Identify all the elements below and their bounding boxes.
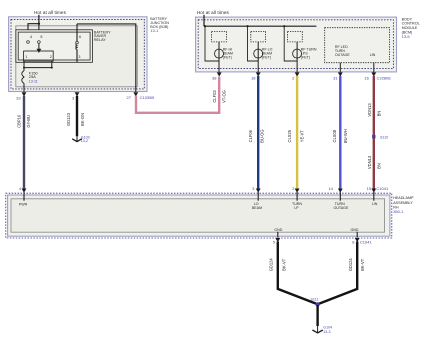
svg-text:1: 1 <box>25 55 27 59</box>
svg-text:BODY: BODY <box>402 17 413 21</box>
svg-text:BU-OG: BU-OG <box>260 129 265 142</box>
junction dot hot feed <box>38 23 40 25</box>
junction dot rail cell1 <box>204 25 206 27</box>
label: BODY CONTROL MODULE (BCM) 13-5 <box>402 17 420 39</box>
svg-text:Hot at all times: Hot at all times <box>197 10 230 15</box>
svg-text:LP: LP <box>294 206 299 210</box>
svg-text:C2280E: C2280E <box>377 76 392 81</box>
svg-text:(FET): (FET) <box>262 56 271 60</box>
relay switch contact box <box>24 51 54 61</box>
ground G103 <box>72 135 89 143</box>
svg-text:OUTAGE: OUTAGE <box>333 206 349 210</box>
svg-text:5: 5 <box>40 35 42 39</box>
fuse F150 25A <box>22 68 39 92</box>
wire: relay armature from pin 5 to switch <box>37 43 42 53</box>
svg-text:G104: G104 <box>323 325 332 329</box>
svg-text:OUTAGE: OUTAGE <box>335 53 351 57</box>
svg-text:CLF03: CLF03 <box>212 90 217 103</box>
pin 6 terminal and feed <box>76 24 81 44</box>
junction dot rail cell2 <box>246 25 248 27</box>
connector arrow BJB pin 33 <box>16 92 26 100</box>
wire: BCM hot rail <box>204 25 316 27</box>
svg-text:CLS25: CLS25 <box>287 129 292 142</box>
svg-text:HEADLAMP: HEADLAMP <box>393 196 414 200</box>
battery junction box BJB outline <box>9 17 147 92</box>
ground G104 <box>312 325 332 333</box>
wire: branch to relay pin 4 <box>28 24 39 41</box>
pin 5 terminal <box>38 35 43 43</box>
svg-text:C1041: C1041 <box>360 240 373 245</box>
svg-text:GD124: GD124 <box>269 258 274 272</box>
wire: pin 6 hot rail to C1035B drop <box>77 24 136 92</box>
wire: switch pin 2 drop <box>51 61 53 69</box>
wire CLS25 YE-VT (BCM pin 2 to headlamp TURN LP) <box>287 76 304 189</box>
svg-text:S111: S111 <box>311 297 319 301</box>
wire CLF06 BU-OG (BCM pin 18 to headlamp LO BEAM) <box>248 76 264 189</box>
headlamp assembly RH outline <box>6 193 392 238</box>
svg-text:LIN: LIN <box>370 53 376 57</box>
wire: LIN drop <box>373 63 375 73</box>
connector arrow headlamp pin 2 TURN LP <box>292 186 299 201</box>
connector arrow headlamp pin 15 C1041 LIN <box>367 186 389 201</box>
wire GD124 BK-VT right (headlamp pin 8 to splice S111) <box>318 242 366 305</box>
label: BATTERY JUNCTION BOX (BJB) 13-1 <box>150 17 169 33</box>
svg-text:Hot at all times: Hot at all times <box>34 10 67 15</box>
connector arrow headlamp pin 8 C1041 GND <box>352 238 372 245</box>
wire GD124 BK-VT left (headlamp pin 5 to splice S111) <box>269 242 318 305</box>
relay K1 battery saver relay box <box>16 30 93 63</box>
label: HEADLAMP ASSEMBLY RH 350-1 <box>393 196 414 214</box>
svg-text:15: 15 <box>367 186 372 191</box>
svg-text:18: 18 <box>251 76 256 81</box>
node TURN LP <box>292 202 302 210</box>
connector arrow BCM pin 16 C2280E <box>364 72 391 80</box>
node: Hot at all times (BCM feed) <box>197 10 230 15</box>
svg-text:13-11: 13-11 <box>29 79 38 83</box>
node TURN OUTAGE <box>333 202 349 210</box>
svg-text:GY-BU: GY-BU <box>26 115 31 128</box>
wire CLS08 BU-WH (BCM pin 31 to headlamp TURN OUTAGE) <box>332 76 348 189</box>
svg-text:BK-VT: BK-VT <box>281 258 286 271</box>
svg-text:3: 3 <box>78 55 80 59</box>
connector arrow BCM pin 38 <box>212 72 222 80</box>
svg-text:13-2: 13-2 <box>81 139 88 143</box>
svg-text:BEAM: BEAM <box>252 206 262 210</box>
svg-text:C1035B: C1035B <box>140 95 155 100</box>
node LIN <box>372 202 378 206</box>
pin 2 label <box>50 55 52 59</box>
body control module BCM outline <box>196 17 397 72</box>
connector arrow headlamp pin 4 PWR <box>19 186 26 201</box>
svg-text:27: 27 <box>127 95 132 100</box>
svg-text:33: 33 <box>16 95 21 100</box>
svg-text:C1041: C1041 <box>376 186 389 191</box>
splice S111 <box>311 297 320 306</box>
svg-text:(FET): (FET) <box>301 56 310 60</box>
connector arrow BJB pin 27 C1035B <box>127 92 155 100</box>
junction dot rail cell3 <box>283 25 285 27</box>
svg-text:PWR: PWR <box>19 202 28 206</box>
svg-text:GD124: GD124 <box>348 258 353 272</box>
wire GD123 BK-GN (BJB pin 3 to ground G103) <box>66 96 85 136</box>
relay coil <box>76 44 77 62</box>
connector arrow BCM pin 18 <box>251 72 261 80</box>
pin 3 label <box>78 55 80 59</box>
connector arrow BCM pin 31 <box>333 72 343 80</box>
svg-text:CONTROL: CONTROL <box>402 22 420 26</box>
FET Q3 RF TURN LPS <box>284 26 317 72</box>
svg-text:16: 16 <box>364 76 369 81</box>
svg-text:13-3: 13-3 <box>323 330 330 334</box>
svg-text:BN: BN <box>376 111 381 117</box>
wire: hot feed into BCM <box>203 15 205 26</box>
wire CLF03 VT-OG (BJB pin 27 to BCM pin 38) <box>136 77 227 113</box>
wire VDN13 BN lower (splice S110 to headlamp LIN) <box>367 155 382 169</box>
FET Q2 RF LO BEAM <box>248 26 273 72</box>
node GND left <box>274 228 282 238</box>
svg-text:6: 6 <box>79 35 81 39</box>
pin 1 label <box>25 55 27 59</box>
node LO BEAM <box>252 202 262 210</box>
svg-text:YE-VT: YE-VT <box>299 130 304 143</box>
node: Hot at all times (BJB feed) <box>34 10 67 15</box>
svg-text:VDN13: VDN13 <box>367 155 372 169</box>
svg-text:13-1: 13-1 <box>150 28 159 33</box>
svg-text:CLF06: CLF06 <box>248 129 253 142</box>
node PWR <box>19 202 28 206</box>
svg-text:S110: S110 <box>380 135 388 139</box>
svg-text:38: 38 <box>212 76 217 81</box>
svg-text:(FET): (FET) <box>223 56 232 60</box>
svg-text:350-1: 350-1 <box>393 209 404 214</box>
svg-text:4: 4 <box>30 35 32 39</box>
svg-text:VDN13: VDN13 <box>367 103 372 117</box>
svg-text:31: 31 <box>333 76 338 81</box>
svg-text:BK-VT: BK-VT <box>360 258 365 271</box>
wire splice S111 to ground G104 <box>316 305 318 326</box>
svg-text:MODULE: MODULE <box>402 26 418 30</box>
svg-text:GND: GND <box>351 228 359 232</box>
wire VDN13 BN upper (BCM pin 16 to splice S110) <box>367 76 382 189</box>
wire: hot feed into BJB <box>38 15 40 24</box>
connector arrow BJB pin 3 <box>72 92 79 100</box>
svg-text:VT-OG: VT-OG <box>222 90 227 103</box>
svg-text:BN: BN <box>376 163 381 169</box>
svg-text:13-5: 13-5 <box>402 34 411 39</box>
svg-text:GD123: GD123 <box>66 112 71 126</box>
svg-text:CLS08: CLS08 <box>332 129 337 142</box>
wire CBP16 GY-BU (BJB pin 33 to headlamp PWR) <box>17 96 31 189</box>
svg-text:14: 14 <box>328 186 333 191</box>
connector arrow BCM pin 2 <box>292 72 299 80</box>
wire: switch pin 1 drop <box>23 61 25 69</box>
splice S110 <box>372 135 388 139</box>
svg-text:LIN: LIN <box>372 202 378 206</box>
wire: turn outage output drop <box>339 63 341 73</box>
svg-text:2: 2 <box>50 55 52 59</box>
label: BATTERY SAVER RELAY <box>94 30 111 42</box>
svg-text:BK-GN: BK-GN <box>80 113 85 126</box>
connector arrow headlamp pin 5 GND <box>273 238 280 245</box>
svg-text:GND: GND <box>274 228 282 232</box>
svg-text:BU-WH: BU-WH <box>343 129 348 143</box>
node GND right <box>351 228 359 238</box>
FET Q1 RF HI BEAM <box>205 26 233 72</box>
pin 4 terminal <box>27 35 32 43</box>
svg-text:ASSEMBLY: ASSEMBLY <box>393 201 413 205</box>
connector arrow headlamp pin 3 LO BEAM <box>252 186 260 201</box>
svg-text:CBP16: CBP16 <box>17 114 22 128</box>
BCM LED turn outage module box <box>325 28 390 63</box>
svg-text:RELAY: RELAY <box>94 38 106 42</box>
connector arrow headlamp pin 14 TURN OUTAGE <box>328 186 342 201</box>
wire: switch tie bar <box>24 67 52 69</box>
wire: feed to relay pin 5 <box>38 24 40 41</box>
